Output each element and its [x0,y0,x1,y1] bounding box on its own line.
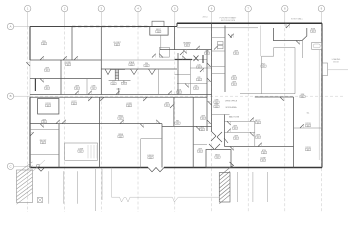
restroom north wall [177,49,212,51]
door door 1 [40,56,44,60]
grid line 3 [100,27,102,213]
door door 8 [143,97,147,101]
electrical panel inner [313,44,320,48]
svg-text:101: 101 [301,96,304,98]
room label CORR [126,103,132,107]
grid line 6 [211,23,213,212]
svg-text:101: 101 [42,142,45,144]
room label PBX [41,41,46,45]
svg-text:101: 101 [216,157,219,159]
grid stem 3 [100,12,102,27]
svg-text:101: 101 [67,64,70,66]
svg-text:EXIST WALL: EXIST WALL [291,18,304,21]
door door 24 [185,84,189,88]
door door 26 [207,78,211,82]
svg-text:101: 101 [262,66,265,68]
detail box with X [38,198,43,203]
svg-text:101: 101 [233,84,236,86]
door door 45 [170,104,174,108]
svg-text:101: 101 [215,106,218,108]
room label OFF [231,76,236,80]
grid leader B [14,95,30,97]
site stripe 4 [95,169,97,211]
room label COR [176,90,181,94]
svg-text:101: 101 [307,125,310,127]
svg-text:B: B [10,94,12,98]
grid line 7 [247,23,249,212]
svg-text:101: 101 [235,138,238,140]
room label MTG [261,150,266,154]
wall offices mid [60,60,62,95]
site stripe 6 [237,172,239,202]
door door 11 [62,120,66,124]
north wall west segment [30,26,150,28]
rr col wall 4 [212,73,226,75]
svg-text:101: 101 [130,64,133,66]
door door 36 [230,147,234,151]
door door 10 [40,124,44,128]
restroom inner wall [189,60,191,95]
door door 46 [196,126,200,130]
door door 17 [56,120,60,124]
wall x99 vertical [98,97,100,167]
room label STOR [45,103,51,107]
site stripe 5 [101,169,103,200]
door door 43 [286,24,290,28]
door door 28 [207,120,211,124]
door door 3 [40,79,44,83]
entry lobby door cluster [209,131,228,149]
door door 42 [140,124,144,128]
door door 7 [116,91,120,95]
room label OFF [232,126,237,130]
svg-text:DOCK: DOCK [333,61,339,63]
room label OFF [214,100,219,104]
north vestibule bump top [152,21,164,26]
room label OFF [214,104,219,108]
door door 16 [30,132,34,136]
room label OFF [233,51,238,55]
lunch north wall [141,138,162,140]
wall x162 vertical [161,124,163,168]
wall x254 vertical [254,121,256,146]
svg-text:101: 101 [47,105,50,107]
restroom west wall [177,53,179,95]
room label WOMEN [183,43,191,47]
svg-text:101: 101 [307,149,310,151]
west wall lower [29,97,31,167]
leader to hatch [33,160,45,171]
room label WORK [65,62,72,66]
main corridor west line [206,50,208,131]
svg-text:MAIL ROOM: MAIL ROOM [229,116,240,119]
room label OFF [255,135,260,139]
room label RR [175,121,180,125]
corridor south line [30,96,207,98]
svg-text:101: 101 [235,53,238,55]
svg-text:101: 101 [263,152,266,154]
svg-text:101: 101 [198,79,201,81]
grid line 9 [320,23,322,212]
toilet fixture 1 [218,42,224,45]
wall offices mid2 [86,79,88,95]
door door 22 [196,46,200,50]
room label RR [196,77,201,81]
site stripe 3 [77,171,79,204]
grid bubble col 4 [135,5,141,11]
restroom mid wall 4 [177,83,207,85]
wall x158 vertical [158,69,160,95]
grid bubble col 1 [25,5,31,11]
east inner wall line [318,50,320,160]
rr col wall 3 [212,66,226,68]
room label OFF [44,86,49,90]
svg-text:101: 101 [199,151,202,153]
svg-text:S-1: S-1 [307,113,310,115]
svg-text:101: 101 [234,128,237,130]
svg-text:101: 101 [166,105,169,107]
wall bump south room [160,35,162,50]
north inner wall line [177,27,258,29]
wall x225 vertical [224,26,226,93]
table chair ticks [88,145,97,158]
north wall mid segment [150,26,177,28]
room label LUNCH [147,155,154,159]
wall x260 light [260,26,262,57]
grid stem 8 [284,12,286,23]
svg-text:101: 101 [257,137,260,139]
room label OFF [197,149,202,153]
grid bubble row C [7,163,13,169]
svg-text:101: 101 [206,53,209,55]
conference west wall [58,124,60,168]
north wall poche dashes [72,26,150,28]
corridor elevator door mark [117,88,121,95]
room label OFF [41,119,46,123]
room label RECEP [40,140,47,144]
room label COPY [71,101,77,105]
room label TRNG [118,116,124,120]
south wall west [30,167,148,169]
door door 34 [227,129,231,133]
grid bubble col 9 [318,5,324,11]
door door 20 [182,56,186,60]
svg-text:101: 101 [116,44,119,46]
grid line 2 [64,27,66,213]
wall y146 right [225,146,294,148]
svg-text:101: 101 [195,88,198,90]
wall row2 south [30,78,101,80]
room label OFF [44,68,49,72]
svg-text:101: 101 [178,92,181,94]
restroom mid wall dark [175,59,192,61]
central wall y60 light [101,59,174,61]
door door 27 [208,101,212,105]
wall y97 right [255,96,294,98]
hatched wall segment center [219,168,230,204]
door door 9 [168,91,172,95]
grid line 4 [137,27,139,213]
room label FUT [261,64,266,68]
wall x174 vertical [173,97,175,126]
room label STAIR [129,61,135,66]
wall openplan east [100,27,102,95]
door door 12 [88,97,92,101]
door door 25 [207,63,211,67]
svg-text:101: 101 [123,83,126,85]
svg-text:101: 101 [73,103,76,105]
room label ACCT [255,119,261,124]
room label OFF [200,116,205,120]
svg-text:A: A [10,25,12,29]
door door 29 [214,46,218,50]
svg-text:101: 101 [46,88,49,90]
wall x193 vertical [192,97,194,167]
wall y128 storage [294,127,323,129]
room label OFF [231,82,236,86]
door X mark [194,56,199,62]
room label OPEN [118,134,124,138]
svg-text:209-0: 209-0 [202,17,208,19]
door door 6 [100,97,104,101]
svg-text:101: 101 [112,83,115,85]
future tenant L outline [240,48,295,94]
grid bubble col 5 [172,5,178,11]
north vestibule bump [150,27,168,36]
south entry double door [148,168,164,172]
door door 15 [152,54,156,58]
wall row1 south [30,59,101,61]
water entry room [273,28,306,41]
room label WTR [310,29,315,33]
room label OFF [164,103,169,107]
door door 14 [26,62,30,66]
svg-text:101: 101 [43,122,46,124]
door zigzag pair 3 [149,69,156,75]
svg-text:101: 101 [119,118,122,120]
grid line 8 [284,23,286,212]
hatched wall segment west [17,162,33,204]
door door 44 [296,41,300,45]
grid stem 7 [247,12,249,23]
wall y144 horizontal [193,143,207,145]
north wall east segment [177,22,322,24]
grid stem 6 [211,12,213,23]
svg-text:101: 101 [257,122,260,124]
room label OFF [74,86,79,90]
door door 5 [88,91,92,95]
svg-text:101: 101 [145,65,148,67]
door door 4 [75,91,79,95]
grid bubble col 7 [245,5,251,11]
grid leader A [14,26,30,28]
site stripe 2 [63,171,65,204]
electrical panel box [312,43,322,50]
janitor closet [160,47,170,57]
svg-text:101: 101 [119,136,122,138]
site stripe 1 [48,171,50,204]
tick above V [37,165,39,167]
svg-text:101: 101 [46,70,49,72]
room label DN [196,65,201,69]
wall y49 horizontal [160,49,177,51]
wall stub dark [34,79,36,92]
room label OFF [233,136,238,140]
reception south [30,154,59,156]
grid bubble col 3 [98,5,104,11]
dark stub x203 [202,55,204,63]
room label VEST [215,155,221,159]
grid line 1 [27,27,29,213]
grid leader C [14,165,30,167]
lunch west wall [140,139,142,168]
door door 38 [280,97,284,101]
dock leveler outside wall [322,63,328,76]
grid bubble col 2 [61,5,67,11]
sidewalk with curb cuts [112,168,220,202]
door door 40 [156,120,160,124]
room label STOR [305,123,311,127]
grid stem 9 [320,12,322,23]
wall y121 right [225,120,255,122]
room label CONF [260,158,266,162]
toilet fixture 2 [218,46,224,49]
room label stair label left [111,81,116,85]
room label VEST [156,29,162,33]
main corridor east line [211,23,213,131]
restroom mid wall 2 [190,67,211,69]
grid stem 5 [174,12,176,27]
door door 21 [183,50,187,54]
wall pbx east [71,27,73,61]
restroom mid wall thin part [192,59,207,61]
storage room [38,99,59,115]
svg-text:101: 101 [176,123,179,125]
svg-text:NOT IN SCOPE: NOT IN SCOPE [221,20,236,22]
east wall [321,23,323,167]
svg-text:101: 101 [92,88,95,90]
door door 13 [74,56,78,60]
room label JAN [204,50,209,55]
south entry V second [38,168,45,172]
svg-text:101: 101 [201,129,204,131]
door zigzag pair 1 [105,69,111,75]
svg-text:101: 101 [262,160,265,162]
svg-text:101: 101 [157,31,160,33]
water room divider [285,23,287,28]
door door 31 [230,34,234,38]
door door 30 [228,34,232,38]
west wall upper [29,27,31,61]
grid line B across [30,95,345,97]
svg-text:101: 101 [186,45,189,47]
site stripe 7 [252,172,254,202]
wall y114 right [212,114,230,116]
wall y126 horizontal [162,125,212,127]
room label OFF [199,127,204,131]
door door 35 [250,132,254,136]
conference table [65,143,98,160]
door zigzag pair 2 [131,69,138,75]
vestibule door zigzag [230,162,236,168]
svg-text:101: 101 [198,67,201,69]
room label CONF [78,149,84,153]
svg-text:101: 101 [128,105,131,107]
svg-text:WORK AREA: WORK AREA [226,106,238,109]
central wall y69 [101,68,177,70]
svg-text:101: 101 [43,43,46,45]
grid bubble col 6 [208,5,214,11]
grid stem 1 [27,12,29,27]
reception north [30,128,59,130]
door door 33 [250,118,254,122]
room label DIM [300,94,305,98]
svg-text:101: 101 [202,118,205,120]
door door 18 [159,54,163,58]
room label OFF [91,86,96,90]
wall x302 vertical [302,41,304,59]
room label STOR [305,147,311,151]
svg-text:OPEN OFFICE: OPEN OFFICE [225,100,238,102]
door door 41 [120,120,124,124]
svg-text:101: 101 [312,31,315,33]
corridor north line [30,94,212,96]
door door 37 [258,143,262,147]
wall x293 vertical [293,97,295,168]
door door 2 [63,56,67,60]
wall x224 vertical [224,115,226,147]
grid bubble row B [7,93,13,99]
grid bubble row A [7,23,13,29]
grid stem 2 [64,12,66,27]
dock leader line [328,69,348,71]
entry vestibule [206,150,231,168]
grid line 5 [174,27,176,213]
site stripe 8 [267,172,269,202]
door door 39 [300,124,304,128]
door door 23 [200,68,204,72]
svg-text:C: C [9,164,11,168]
svg-text:101: 101 [233,78,236,80]
west wall window band [29,60,31,97]
rr col wall 2 [212,50,226,52]
room label CLOSET [113,42,121,46]
room label room label mid [144,63,149,67]
door door 32 [227,121,231,125]
rr col wall 1 [212,37,226,39]
grid stem 4 [137,12,139,27]
north wall jog [176,23,178,26]
stair H shape [109,70,131,81]
restroom mid wall 3 [175,74,191,76]
room label stair label right [121,81,126,85]
south wall east [164,167,322,169]
door door 19 [180,51,184,55]
wall womens west [174,27,176,50]
grid bubble col 8 [282,5,288,11]
wall left lower + training south [30,123,162,125]
svg-text:101: 101 [79,151,82,153]
wall y132 right [225,131,255,133]
svg-text:101: 101 [76,88,79,90]
svg-text:101: 101 [149,157,152,159]
room label RR [193,86,198,90]
